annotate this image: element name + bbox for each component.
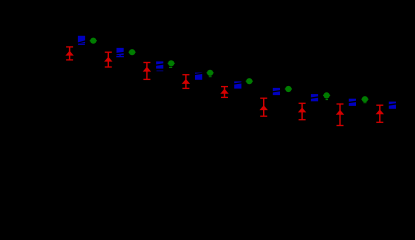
green point 3 lower error cap <box>169 67 172 68</box>
red point 6 triangle marker <box>260 105 268 110</box>
fit line slash over blue point 4 <box>193 73 203 75</box>
red data series (triangles with error bars) <box>65 47 384 126</box>
red point 8 triangle marker <box>336 110 344 115</box>
green point 4 x-error bar <box>207 72 214 74</box>
green point 3 x-error bar <box>168 62 175 64</box>
fit line slash over blue point 9 <box>387 104 397 106</box>
red point 1 error bar <box>66 47 73 60</box>
red point 1 triangle marker <box>65 51 73 56</box>
green point 7 x-error bar <box>323 94 330 96</box>
green point 1 x-error bar <box>90 40 97 42</box>
green point 8 lower error cap <box>363 101 366 104</box>
fit line slash over blue point 7 <box>309 97 319 99</box>
blue point 1 lower error cap <box>78 43 85 45</box>
fit line slash over blue point 6 <box>271 91 281 93</box>
fit line slash over blue point 3 <box>155 64 165 66</box>
red point 3 triangle marker <box>143 67 151 72</box>
blue point 8 square marker <box>349 99 356 106</box>
green data series (circle markers with small x-error bars) <box>90 38 369 104</box>
fit line slash over blue point 1 <box>76 41 86 44</box>
green point 5 circle marker <box>246 78 252 84</box>
red point 6 error bar <box>260 98 267 116</box>
red point 2 triangle marker <box>104 57 112 62</box>
green point 2 x-error bar <box>129 51 136 53</box>
green point 6 x-error bar <box>285 88 292 90</box>
green point 2 circle marker <box>129 49 135 55</box>
green point 7 circle marker <box>324 92 330 98</box>
green point 8 circle marker <box>362 96 368 102</box>
green point 4 lower error cap <box>209 76 212 77</box>
red point 7 triangle marker <box>298 108 306 113</box>
black fit-curve slashes crossing markers <box>76 41 397 106</box>
blue point 5 square marker <box>234 81 241 88</box>
red point 3 error bar <box>143 63 150 80</box>
red point 5 error bar <box>221 87 228 98</box>
red point 2 error bar <box>105 52 112 67</box>
blue point 9 square marker <box>389 102 396 109</box>
red point 9 triangle marker <box>376 109 384 114</box>
red point 4 error bar <box>182 75 189 89</box>
red point 5 triangle marker <box>220 89 228 94</box>
green point 8 x-error bar <box>361 98 368 100</box>
blue point 6 square marker <box>273 88 280 95</box>
fit line slash over blue point 8 <box>347 101 357 103</box>
green point 5 x-error bar <box>246 80 253 82</box>
red point 4 triangle marker <box>182 79 190 84</box>
green point 1 circle marker <box>90 38 96 44</box>
red point 9 error bar <box>376 105 383 122</box>
blue point 2 lower error bar <box>119 55 121 57</box>
blue point 7 square marker <box>311 94 318 101</box>
red point 7 error bar <box>299 103 306 119</box>
fit line slash over blue point 5 <box>233 83 243 85</box>
blue point 1 square marker <box>78 36 85 43</box>
blue point 3 square marker <box>156 61 163 68</box>
red point 8 error bar <box>337 104 344 126</box>
blue data series (square markers) <box>78 36 396 109</box>
green point 7 lower error cap <box>326 99 328 100</box>
green point 4 circle marker <box>207 70 213 76</box>
blue point 2 square marker <box>117 48 124 55</box>
blue point 3 lower error cap (faint) <box>157 70 164 72</box>
green point 6 circle marker <box>285 86 291 92</box>
fit line slash over blue point 2 <box>115 52 125 54</box>
green point 3 circle marker <box>168 60 174 66</box>
blue point 4 square marker <box>195 73 202 80</box>
